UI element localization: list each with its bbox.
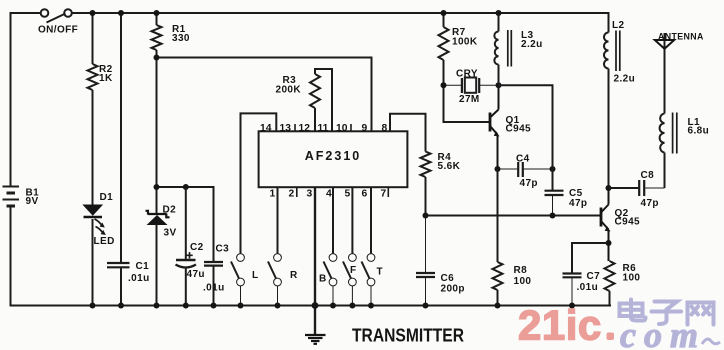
wire R7 bottom to crystal node and Q1 base (444, 60, 490, 122)
svg-text:2: 2 (289, 189, 295, 200)
wire bottom ground bus (11, 305, 611, 307)
ground (305, 335, 326, 344)
wire R4 bottom to node (425, 177, 427, 216)
svg-text:AF2310: AF2310 (305, 149, 361, 163)
svg-text:C7: C7 (587, 271, 601, 282)
IC U1 AF2310 (259, 131, 408, 187)
svg-text:.01u: .01u (203, 283, 225, 294)
junction C4 right / C5 top (550, 166, 556, 172)
wire left edge battery column (10, 13, 12, 186)
junction crystal left / R7 (441, 82, 447, 88)
wire node y57 to pin9 (157, 58, 372, 132)
svg-text:C1: C1 (136, 261, 150, 272)
wire battery bottom to bus (10, 206, 12, 306)
svg-text:C6: C6 (441, 273, 455, 284)
svg-text:7: 7 (381, 189, 387, 200)
junction C4 left / Q1 emitter (495, 166, 501, 172)
capacitor C4 (498, 162, 553, 177)
inductor L3 (498, 13, 500, 32)
switch L (231, 254, 244, 306)
svg-text:TRANSMITTER: TRANSMITTER (352, 326, 464, 346)
wire pin14 bracket to switch L (241, 113, 277, 253)
junction ground bus / D2 (154, 303, 160, 309)
junction R4/C6 node (423, 213, 429, 219)
svg-text:100K: 100K (452, 37, 478, 48)
wire Q2 collector node to C8 (609, 187, 639, 189)
node dot R1 bottom (154, 55, 160, 61)
switch B (324, 254, 337, 306)
svg-text:13: 13 (280, 123, 292, 134)
svg-text:3: 3 (307, 189, 313, 200)
junction top bus / C1 (118, 10, 124, 16)
wire pin6 to switch T (370, 187, 372, 253)
svg-text:1K: 1K (99, 73, 113, 84)
svg-text:2.2u: 2.2u (521, 39, 543, 50)
svg-text:47p: 47p (641, 198, 659, 209)
capacitor C2 electrolytic (176, 187, 197, 306)
diode D1 LED (84, 205, 106, 235)
svg-text:9: 9 (362, 123, 368, 134)
svg-text:8: 8 (382, 123, 388, 134)
wire top supply bus (11, 12, 609, 14)
antenna (664, 33, 666, 114)
junction crystal right / L3 (496, 82, 502, 88)
svg-text:.01u: .01u (577, 282, 599, 293)
svg-text:330: 330 (172, 33, 190, 44)
svg-text:200p: 200p (441, 284, 465, 295)
svg-text:F: F (350, 265, 357, 276)
junction ground bus / D1 (90, 303, 96, 309)
junction top bus / L3 (496, 10, 502, 16)
svg-text:T: T (377, 267, 384, 278)
svg-text:com: com (620, 315, 706, 350)
svg-text:R8: R8 (514, 265, 528, 276)
svg-text:9V: 9V (26, 196, 39, 207)
wire L3 node to C5 column (499, 85, 553, 190)
svg-text:47p: 47p (569, 198, 587, 209)
capacitor C7 (563, 274, 582, 306)
junction ground bus / switch B (330, 303, 336, 309)
svg-text:L2: L2 (612, 20, 625, 31)
svg-text:100: 100 (623, 273, 641, 284)
junction ground bus / switch R (275, 303, 281, 309)
junction ground bus / C7 (569, 303, 575, 309)
capacitor C1 (107, 263, 130, 267)
svg-text:ANTENNA: ANTENNA (658, 32, 704, 42)
wire node y187 D2/C2/C3 (157, 187, 214, 262)
svg-text:5.6K: 5.6K (438, 161, 461, 172)
svg-text:14: 14 (260, 123, 272, 134)
pin 2 stub (296, 187, 298, 197)
junction ground bus / switch F (349, 303, 355, 309)
capacitor C6 (416, 216, 435, 306)
svg-text:2.2u: 2.2u (614, 74, 636, 85)
battery B1 (3, 187, 20, 207)
svg-text:6: 6 (362, 189, 368, 200)
svg-text:C2: C2 (190, 242, 204, 253)
svg-text:C3: C3 (216, 244, 230, 255)
junction C5 bottom / base line (550, 213, 556, 219)
svg-text:3V: 3V (164, 228, 177, 239)
svg-text:5: 5 (345, 189, 351, 200)
svg-text:ON/OFF: ON/OFF (38, 25, 78, 36)
svg-text:C8: C8 (641, 170, 655, 181)
svg-text:6.8u: 6.8u (688, 126, 710, 137)
svg-text:47p: 47p (520, 178, 538, 189)
svg-text:B: B (319, 274, 327, 285)
junction ground bus / switch L (238, 303, 244, 309)
junction ground bus / switch T (368, 303, 374, 309)
wire emitter node to C7 (572, 243, 609, 273)
svg-text:D1: D1 (100, 192, 114, 203)
wire R3 to pin12 (314, 108, 316, 131)
resistor R1 (152, 25, 162, 50)
svg-text:D2: D2 (163, 205, 177, 216)
svg-text:CRY: CRY (456, 69, 478, 80)
wire R3 top bracket to pin11 (315, 69, 332, 131)
resistor R4 (421, 152, 431, 178)
watermark chinese dian (620, 300, 646, 321)
capacitor C3 (204, 262, 223, 306)
svg-text:47u: 47u (187, 269, 205, 280)
svg-text:27M: 27M (459, 94, 480, 105)
inductor L2 (608, 13, 610, 33)
junction ground bus / R8 (495, 303, 501, 309)
resistor R8 (497, 169, 499, 262)
svg-text:200K: 200K (276, 85, 302, 96)
switch F (343, 254, 356, 306)
svg-text:1: 1 (270, 189, 276, 200)
wire C1 column (120, 13, 122, 306)
junction top bus / R1 (154, 10, 160, 16)
switch SW on/off (41, 9, 72, 22)
switch T (362, 254, 375, 306)
wire pin5 to switch F (351, 187, 353, 253)
watermark chinese wang (688, 303, 714, 325)
junction ground bus / C3 (211, 303, 217, 309)
junction ground bus / C2 (183, 303, 189, 309)
svg-text:12: 12 (299, 123, 311, 134)
wire pin3 to ground (314, 187, 316, 334)
svg-text:LED: LED (94, 236, 115, 247)
svg-text:21ic: 21ic (518, 302, 602, 349)
wire R2/D1 column (92, 13, 94, 306)
inductor L1 (664, 153, 666, 189)
svg-text:.01u: .01u (128, 273, 150, 284)
capacitor C8 (639, 180, 664, 196)
junction ground bus / C1 (118, 303, 124, 309)
junction node C2 top (183, 184, 189, 190)
junction Q2 collector / L2 / C8 (606, 185, 612, 191)
capacitor C5 (545, 191, 564, 216)
switch R (268, 254, 281, 306)
wire long node y215 to Q2 base (426, 215, 601, 217)
transistor Q1 C945 (490, 85, 500, 169)
svg-text:L: L (252, 270, 259, 281)
pin 7 stub (387, 187, 389, 197)
watermark chinese zi (652, 302, 682, 325)
svg-text:C4: C4 (516, 154, 530, 165)
wire pin4 to switch B (332, 187, 334, 253)
junction node D2 top (154, 184, 160, 190)
svg-text:C945: C945 (506, 124, 532, 135)
svg-text:4: 4 (326, 189, 332, 200)
crystal CRY 27M (444, 78, 499, 94)
junction ground bus / C6 (423, 303, 429, 309)
resistor R6 (605, 261, 615, 291)
resistor R3 (310, 74, 320, 108)
svg-text:C945: C945 (615, 217, 641, 228)
junction top bus / R2 (90, 10, 96, 16)
wire pin1 to switch R (277, 187, 279, 253)
junction ground bus / ground stem (312, 302, 319, 309)
node Q2 emitter / C7 (606, 240, 612, 246)
diode D2 zener (146, 211, 170, 306)
svg-text:10: 10 (336, 123, 348, 134)
svg-text:100: 100 (514, 276, 532, 287)
wire pin8 to R4 top (390, 114, 426, 152)
svg-text:11: 11 (318, 123, 329, 134)
junction top bus / R7 (441, 10, 447, 16)
resistor R2 (88, 64, 98, 90)
transistor Q2 C945 (601, 188, 611, 261)
svg-text:R: R (290, 270, 298, 281)
wire R1 column (156, 13, 158, 213)
resistor R7 (443, 13, 445, 27)
